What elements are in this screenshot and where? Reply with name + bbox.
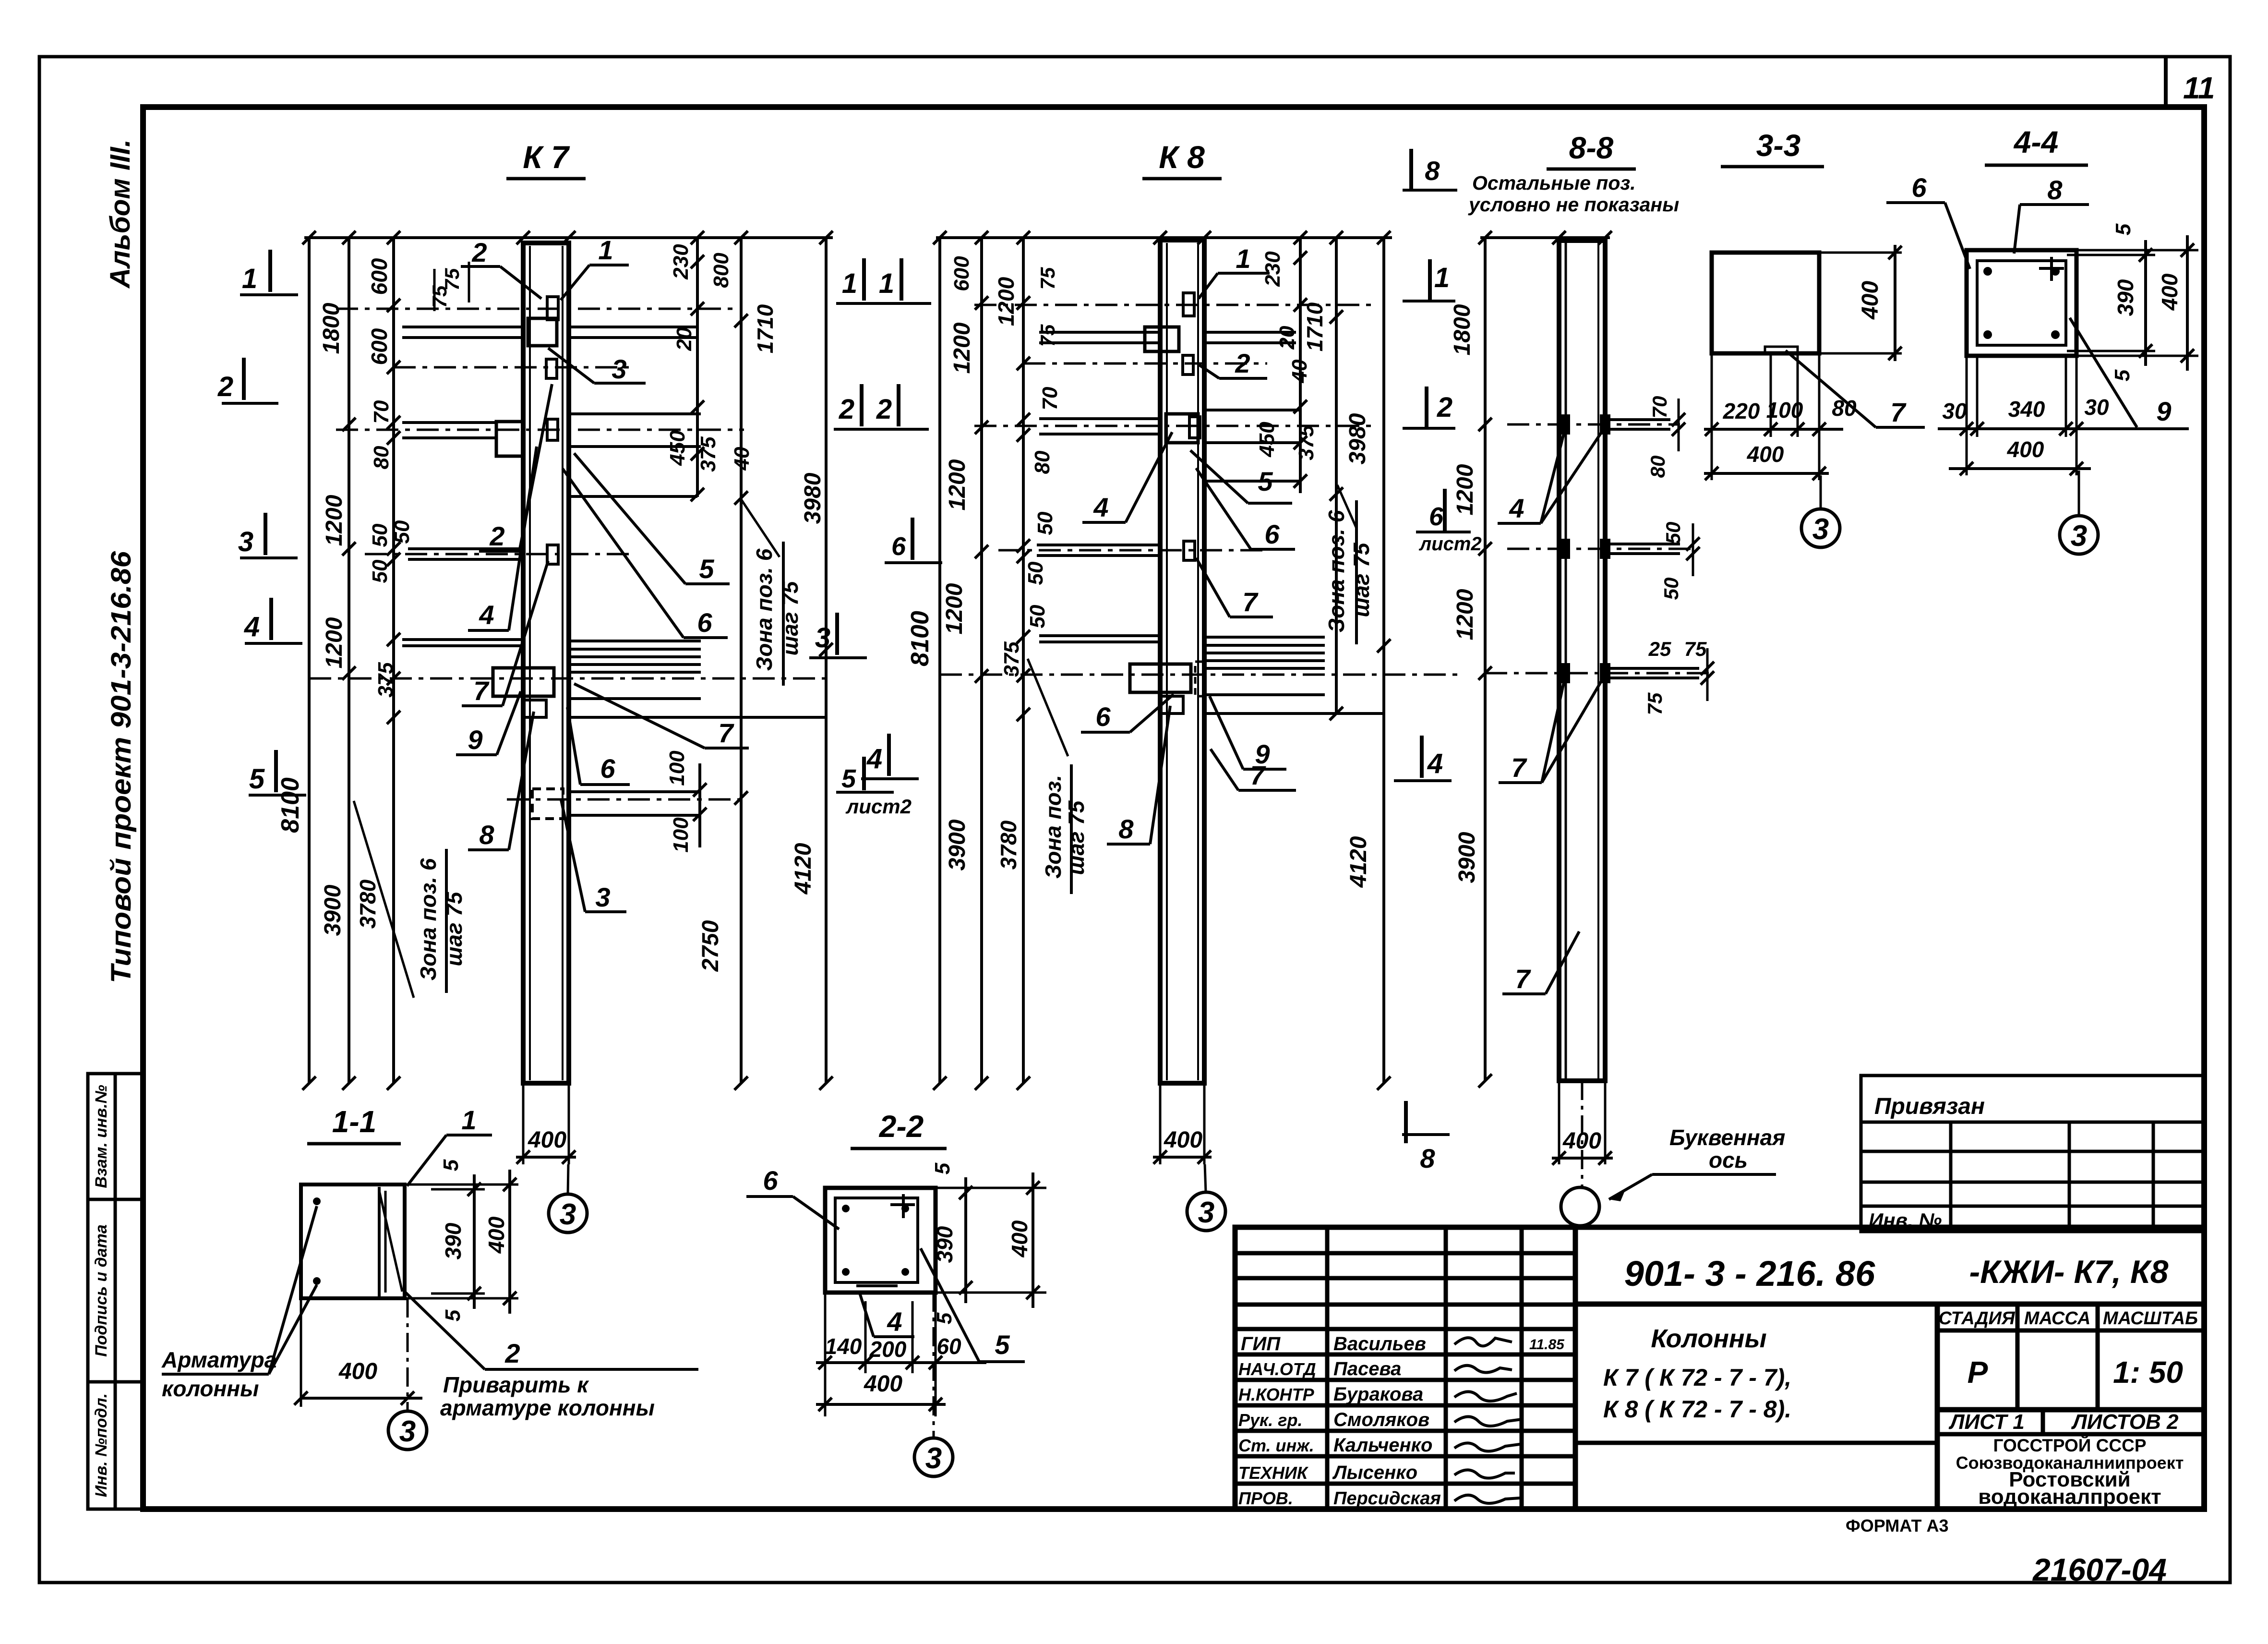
svg-text:375: 375 — [374, 662, 397, 698]
svg-text:3900: 3900 — [320, 884, 346, 936]
leader labels — [456, 265, 749, 912]
svg-text:7: 7 — [1515, 964, 1531, 994]
chain A 8100 — [938, 238, 941, 1083]
svg-text:6: 6 — [697, 607, 712, 638]
svg-text:901- 3 - 216. 86: 901- 3 - 216. 86 — [1624, 1254, 1875, 1293]
svg-text:1: 1 — [1434, 262, 1450, 293]
svg-text:400: 400 — [1747, 442, 1784, 467]
svg-text:100: 100 — [665, 750, 689, 786]
svg-text:4: 4 — [887, 1306, 902, 1337]
leader labels — [1498, 430, 1603, 994]
svg-text:2: 2 — [217, 371, 233, 402]
svg-text:К 8: К 8 — [1159, 139, 1205, 175]
left chain — [1484, 238, 1487, 1081]
svg-text:50: 50 — [1033, 511, 1057, 535]
svg-text:8: 8 — [1118, 814, 1134, 844]
svg-text:9: 9 — [468, 725, 482, 755]
svg-text:3980: 3980 — [800, 472, 826, 524]
svg-text:2: 2 — [876, 394, 892, 425]
svg-text:6: 6 — [1264, 519, 1280, 549]
right dims — [2076, 249, 2198, 252]
svg-text:70: 70 — [370, 400, 393, 423]
svg-text:3780: 3780 — [996, 820, 1021, 870]
chain B 600/1200/1200/1200/3900 — [980, 238, 983, 1083]
svg-text:4: 4 — [1093, 492, 1108, 522]
svg-text:Н.КОНТР: Н.КОНТР — [1238, 1385, 1315, 1404]
svg-text:лист2: лист2 — [845, 795, 912, 818]
svg-text:75: 75 — [441, 268, 463, 290]
svg-text:5: 5 — [249, 763, 265, 795]
level5 dashed plate pos3 — [532, 789, 563, 819]
9 leader — [2070, 318, 2137, 427]
svg-text:50: 50 — [1660, 578, 1682, 600]
bottom 400 + circle — [1558, 1081, 1560, 1164]
privyazan table top-right of title area — [1861, 1076, 2204, 1232]
svg-text:1: 1 — [879, 268, 894, 299]
svg-text:1-1: 1-1 — [332, 1104, 377, 1139]
svg-text:2750: 2750 — [698, 920, 723, 972]
svg-text:НАЧ.ОТД: НАЧ.ОТД — [1238, 1359, 1316, 1379]
bottom 400 + circle — [522, 1083, 525, 1164]
svg-text:7: 7 — [718, 718, 734, 748]
svg-text:50: 50 — [368, 523, 392, 547]
svg-text:арматуре колонны: арматуре колонны — [440, 1395, 655, 1420]
svg-text:390: 390 — [2113, 279, 2138, 316]
svg-text:25: 25 — [1648, 638, 1671, 660]
svg-text:6: 6 — [891, 532, 906, 561]
svg-text:1200: 1200 — [994, 277, 1019, 326]
svg-text:шаг 75: шаг 75 — [1064, 800, 1089, 875]
svg-text:Буракова: Буракова — [1333, 1384, 1423, 1405]
bottom 400 — [300, 1298, 302, 1407]
svg-text:1: 1 — [1236, 243, 1250, 274]
svg-text:5: 5 — [2112, 223, 2135, 235]
small dims right — [1678, 399, 1680, 451]
svg-text:СТАДИЯ: СТАДИЯ — [1938, 1308, 2015, 1329]
svg-text:400: 400 — [864, 1371, 902, 1397]
svg-text:1710: 1710 — [1302, 302, 1327, 351]
svg-text:Ст. инж.: Ст. инж. — [1238, 1436, 1314, 1455]
svg-text:400: 400 — [484, 1216, 509, 1254]
bottom-left stamp strip — [88, 1074, 143, 1509]
bottom dims — [1967, 356, 2076, 475]
plates on right edge — [1562, 416, 1699, 682]
svg-text:ЛИСТОВ 2: ЛИСТОВ 2 — [2071, 1410, 2179, 1434]
svg-text:1: 1 — [598, 235, 613, 265]
svg-text:8100: 8100 — [906, 611, 934, 666]
svg-text:Зона поз.: Зона поз. — [1041, 775, 1066, 879]
svg-text:30: 30 — [1942, 399, 1967, 423]
level1 plate pos1 — [547, 297, 558, 320]
svg-text:220: 220 — [1723, 399, 1760, 423]
svg-text:ГИП: ГИП — [1241, 1333, 1281, 1354]
svg-text:4-4: 4-4 — [2013, 125, 2059, 159]
svg-text:Пасева: Пасева — [1333, 1358, 1401, 1379]
svg-text:30: 30 — [2084, 395, 2109, 420]
svg-text:11: 11 — [2183, 71, 2215, 105]
svg-text:8: 8 — [1425, 156, 1440, 186]
svg-text:1800: 1800 — [319, 302, 344, 354]
svg-text:200: 200 — [869, 1337, 907, 1362]
consoles / embedded plates — [402, 297, 826, 819]
bottom dims — [1712, 353, 1819, 480]
svg-text:Типовой проект 901-3-216.86: Типовой проект 901-3-216.86 — [106, 551, 137, 983]
svg-text:400: 400 — [2157, 273, 2182, 311]
svg-text:8: 8 — [2047, 175, 2063, 205]
svg-text:1200: 1200 — [322, 495, 347, 546]
100/100 mini chain bottom right — [698, 763, 701, 847]
svg-text:20: 20 — [672, 327, 696, 351]
svg-text:колонны: колонны — [162, 1376, 259, 1401]
svg-text:20: 20 — [1275, 326, 1299, 350]
svg-text:шаг 75: шаг 75 — [778, 580, 803, 655]
svg-text:Р: Р — [1968, 1355, 1988, 1390]
svg-text:600: 600 — [367, 258, 392, 295]
svg-text:80: 80 — [370, 446, 393, 469]
svg-text:4: 4 — [1509, 493, 1524, 523]
svg-text:1: 1 — [242, 263, 257, 294]
svg-text:400: 400 — [1007, 1220, 1032, 1257]
svg-text:7: 7 — [1242, 587, 1259, 617]
top dim line — [1480, 236, 1610, 239]
chain C — [1022, 238, 1025, 1083]
svg-text:ФОРМАТ А3: ФОРМАТ А3 — [1846, 1516, 1948, 1535]
svg-text:450: 450 — [1255, 422, 1279, 458]
svg-text:400: 400 — [528, 1127, 566, 1153]
svg-text:5: 5 — [995, 1330, 1010, 1360]
svg-text:К 7 ( К 72 - 7 - 7),: К 7 ( К 72 - 7 - 7), — [1603, 1364, 1791, 1391]
svg-text:40: 40 — [1288, 359, 1311, 383]
svg-text:5: 5 — [1258, 466, 1273, 496]
svg-text:70: 70 — [1648, 396, 1671, 419]
bottom 400 + circle — [1159, 1083, 1162, 1164]
right dim 400 — [1819, 252, 1902, 254]
svg-text:4120: 4120 — [791, 843, 816, 895]
svg-text:75: 75 — [1684, 638, 1707, 660]
signature table rows — [1235, 1251, 1575, 1256]
svg-text:Остальные поз.: Остальные поз. — [1472, 172, 1636, 194]
axes dash-dot — [309, 309, 826, 799]
svg-text:60: 60 — [936, 1334, 961, 1359]
svg-text:800: 800 — [709, 253, 733, 288]
svg-text:К 7: К 7 — [523, 139, 570, 175]
svg-text:8: 8 — [479, 820, 494, 850]
svg-text:Лысенко: Лысенко — [1332, 1462, 1417, 1483]
svg-text:375: 375 — [1295, 425, 1318, 460]
svg-text:6: 6 — [1429, 502, 1444, 531]
svg-text:400: 400 — [338, 1359, 377, 1384]
svg-text:75: 75 — [1036, 267, 1059, 290]
svg-text:1800: 1800 — [1450, 304, 1475, 355]
svg-text:Колонны: Колонны — [1651, 1324, 1766, 1353]
bottom dims — [825, 1293, 936, 1416]
svg-text:600: 600 — [950, 256, 973, 291]
svg-text:70: 70 — [1038, 387, 1062, 410]
svg-text:340: 340 — [2008, 397, 2045, 422]
svg-text:Инв. №подл.: Инв. №подл. — [92, 1393, 110, 1498]
svg-text:лист2: лист2 — [1418, 533, 1481, 555]
svg-text:1200: 1200 — [322, 617, 347, 668]
svg-text:Кальченко: Кальченко — [1333, 1435, 1432, 1456]
svg-text:7: 7 — [473, 676, 490, 706]
svg-text:50: 50 — [390, 520, 414, 544]
format / inventory notes — [1846, 1516, 2167, 1587]
svg-text:390: 390 — [932, 1226, 957, 1263]
svg-text:ТЕХНИК: ТЕХНИК — [1238, 1463, 1309, 1483]
svg-text:80: 80 — [1646, 456, 1669, 478]
top dimension line — [936, 236, 1392, 239]
chain C 600/600/70/80/... — [392, 238, 395, 1083]
sheet number box 11 — [2166, 57, 2215, 107]
svg-text:3: 3 — [595, 882, 610, 912]
svg-text:400: 400 — [2007, 437, 2044, 462]
svg-text:4: 4 — [244, 611, 260, 642]
svg-text:375: 375 — [1000, 641, 1023, 677]
svg-text:1: 1 — [461, 1105, 476, 1135]
svg-text:40: 40 — [730, 447, 754, 471]
svg-text:230: 230 — [1261, 251, 1284, 287]
svg-text:6: 6 — [1095, 701, 1111, 732]
svg-text:450: 450 — [666, 430, 689, 466]
signature table verticals — [1325, 1227, 1330, 1509]
top 8 mark — [1409, 149, 1413, 191]
svg-text:МАССА: МАССА — [2024, 1308, 2091, 1329]
svg-text:2: 2 — [1235, 348, 1250, 378]
svg-text:140: 140 — [825, 1334, 862, 1359]
svg-text:50: 50 — [1024, 561, 1047, 585]
axes — [1485, 424, 1709, 673]
svg-text:4: 4 — [1427, 748, 1443, 779]
svg-text:100: 100 — [669, 817, 693, 853]
right dims — [936, 1187, 1046, 1189]
svg-text:7: 7 — [1250, 760, 1266, 790]
bottom 8 mark — [1404, 1101, 1408, 1143]
svg-text:1200: 1200 — [1452, 589, 1478, 640]
svg-text:230: 230 — [669, 244, 693, 280]
svg-text:600: 600 — [367, 328, 392, 365]
svg-text:50: 50 — [1026, 604, 1049, 628]
svg-text:3980: 3980 — [1345, 413, 1370, 464]
svg-text:1200: 1200 — [945, 459, 970, 510]
svg-text:75: 75 — [1644, 692, 1666, 715]
top dimension line — [304, 236, 833, 239]
svg-text:400: 400 — [1164, 1127, 1202, 1153]
svg-text:80: 80 — [1031, 450, 1054, 474]
svg-text:3900: 3900 — [1454, 832, 1480, 883]
svg-text:400: 400 — [1858, 281, 1883, 320]
svg-text:9: 9 — [2156, 396, 2171, 426]
svg-text:11.85: 11.85 — [1529, 1337, 1565, 1353]
inner frame — [143, 107, 2204, 1509]
right chains — [1299, 238, 1302, 493]
svg-text:ось: ось — [1709, 1148, 1748, 1173]
svg-text:Буквенная: Буквенная — [1669, 1125, 1785, 1150]
svg-text:8: 8 — [1420, 1143, 1435, 1173]
svg-text:Зона поз. 6: Зона поз. 6 — [1324, 510, 1349, 632]
svg-text:3-3: 3-3 — [1756, 128, 1801, 163]
svg-text:водоканалпроект: водоканалпроект — [1978, 1485, 2161, 1509]
svg-text:3: 3 — [612, 354, 626, 384]
left margin texts — [105, 139, 137, 983]
svg-text:-КЖИ- К7, К8: -КЖИ- К7, К8 — [1969, 1254, 2169, 1290]
svg-text:50: 50 — [368, 559, 392, 583]
big cells — [1575, 1302, 2204, 1307]
svg-text:1: 1 — [842, 268, 857, 299]
svg-text:2: 2 — [489, 521, 504, 551]
svg-text:Зона поз. 6: Зона поз. 6 — [752, 548, 777, 671]
svg-text:5: 5 — [439, 1159, 463, 1171]
svg-text:Альбом III.: Альбом III. — [105, 139, 136, 289]
svg-text:5: 5 — [699, 554, 714, 584]
svg-text:3: 3 — [815, 622, 830, 653]
level4 cluster pos8/9 — [402, 638, 523, 641]
chain B 1800/1200/1200/3900 — [348, 238, 350, 1083]
chain A 8100 — [308, 238, 311, 1083]
svg-text:ПРОВ.: ПРОВ. — [1238, 1488, 1293, 1508]
svg-text:ЛИСТ 1: ЛИСТ 1 — [1948, 1410, 2025, 1434]
svg-text:375: 375 — [696, 436, 720, 472]
svg-text:5: 5 — [2111, 369, 2134, 381]
axes dash-dot — [940, 305, 1459, 675]
svg-text:Подпись и дата: Подпись и дата — [92, 1224, 110, 1357]
channel at right side — [378, 1187, 381, 1296]
svg-text:8-8: 8-8 — [1569, 131, 1614, 165]
svg-text:3: 3 — [238, 526, 253, 557]
title block — [1235, 1227, 2204, 1509]
right section marks of K8 — [1422, 259, 1445, 778]
svg-text:4: 4 — [479, 600, 494, 630]
svg-text:3780: 3780 — [355, 879, 380, 929]
7 leader — [1786, 351, 1876, 427]
svg-text:Привязан: Привязан — [1874, 1094, 1985, 1119]
svg-text:6: 6 — [763, 1165, 778, 1196]
svg-text:Персидская: Персидская — [1333, 1488, 1441, 1509]
svg-text:Васильев: Васильев — [1333, 1333, 1426, 1354]
svg-text:условно не показаны: условно не показаны — [1468, 193, 1679, 216]
svg-text:2: 2 — [504, 1338, 520, 1368]
svg-text:Приварить к: Приварить к — [443, 1372, 589, 1397]
svg-text:100: 100 — [1766, 398, 1803, 423]
svg-text:8100: 8100 — [276, 777, 304, 833]
svg-text:1200: 1200 — [1452, 464, 1478, 515]
svg-text:390: 390 — [441, 1222, 466, 1259]
svg-text:1710: 1710 — [753, 304, 778, 353]
svg-text:2: 2 — [471, 237, 487, 267]
svg-text:5: 5 — [841, 764, 856, 793]
svg-text:МАСШТАБ: МАСШТАБ — [2103, 1308, 2198, 1329]
column body — [1160, 240, 1204, 1083]
right dims — [405, 1184, 518, 1186]
svg-text:2-2: 2-2 — [879, 1109, 924, 1144]
svg-text:7: 7 — [1511, 752, 1527, 783]
svg-text:Смоляков: Смоляков — [1333, 1409, 1429, 1430]
signatures squiggles — [1454, 1338, 1522, 1503]
svg-text:К 8 ( К 72 - 7 - 8).: К 8 ( К 72 - 7 - 8). — [1603, 1396, 1791, 1423]
right chains — [696, 238, 699, 497]
level3 plate pos7 — [547, 545, 558, 564]
svg-text:50: 50 — [1662, 522, 1684, 544]
svg-text:Взам. инв.№: Взам. инв.№ — [92, 1085, 110, 1188]
notch plate at bottom — [1765, 347, 1798, 353]
left section marks — [244, 250, 276, 792]
svg-text:1200: 1200 — [942, 583, 967, 634]
svg-text:Арматура: Арматура — [161, 1347, 276, 1372]
consoles / plates — [1037, 293, 1384, 713]
level2 bracket pos4/5 — [496, 422, 523, 456]
svg-text:3900: 3900 — [945, 819, 970, 870]
svg-text:ГОССТРОЙ СССР: ГОССТРОЙ СССР — [1993, 1435, 2146, 1455]
svg-text:шаг 75: шаг 75 — [1349, 542, 1374, 617]
svg-text:6: 6 — [600, 753, 615, 784]
svg-text:Зона поз. 6: Зона поз. 6 — [416, 858, 441, 980]
svg-text:4120: 4120 — [1346, 836, 1371, 888]
svg-text:4: 4 — [866, 743, 882, 774]
svg-text:7: 7 — [1890, 397, 1907, 427]
svg-text:6: 6 — [1911, 172, 1927, 203]
svg-text:5: 5 — [931, 1162, 954, 1174]
leader labels — [1081, 273, 1296, 844]
column — [1559, 241, 1605, 1081]
svg-text:21607-04: 21607-04 — [2032, 1552, 2167, 1587]
svg-text:Рук. гр.: Рук. гр. — [1238, 1410, 1303, 1430]
svg-text:2: 2 — [839, 394, 854, 425]
svg-text:2: 2 — [1437, 392, 1452, 423]
svg-text:1: 50: 1: 50 — [2113, 1355, 2183, 1390]
column body — [523, 243, 569, 1083]
svg-text:5: 5 — [441, 1309, 465, 1321]
middle section marks between K7 and K8 — [809, 258, 942, 818]
svg-text:1200: 1200 — [949, 322, 975, 374]
